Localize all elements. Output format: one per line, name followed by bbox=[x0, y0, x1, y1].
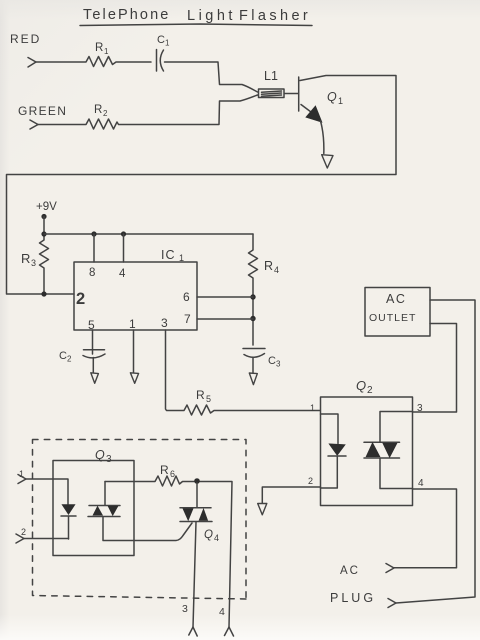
svg-text:3: 3 bbox=[182, 603, 188, 615]
svg-text:3: 3 bbox=[31, 258, 36, 268]
svg-text:7: 7 bbox=[184, 312, 191, 326]
svg-text:4: 4 bbox=[418, 478, 424, 489]
svg-text:3: 3 bbox=[106, 454, 112, 465]
svg-text:R: R bbox=[264, 259, 273, 273]
svg-text:GREEN: GREEN bbox=[18, 104, 67, 118]
svg-text:Q: Q bbox=[327, 90, 337, 104]
svg-text:Q: Q bbox=[204, 529, 213, 541]
svg-text:2: 2 bbox=[308, 476, 313, 486]
svg-text:4: 4 bbox=[214, 533, 219, 543]
svg-text:3: 3 bbox=[161, 316, 168, 330]
svg-text:AC: AC bbox=[340, 565, 360, 577]
svg-text:5: 5 bbox=[206, 394, 211, 404]
svg-text:AC: AC bbox=[386, 292, 406, 306]
svg-text:IC: IC bbox=[161, 248, 176, 262]
svg-text:C: C bbox=[268, 355, 276, 367]
svg-text:R: R bbox=[196, 388, 205, 402]
svg-text:C: C bbox=[59, 350, 67, 362]
svg-text:R: R bbox=[94, 104, 102, 116]
svg-text:6: 6 bbox=[170, 469, 175, 479]
svg-text:R: R bbox=[95, 42, 103, 54]
svg-text:2: 2 bbox=[76, 290, 85, 308]
svg-text:5: 5 bbox=[88, 318, 95, 332]
svg-text:1: 1 bbox=[129, 317, 136, 331]
svg-text:1: 1 bbox=[165, 39, 170, 48]
svg-text:Q: Q bbox=[95, 448, 105, 462]
svg-text:TelePhone: TelePhone bbox=[83, 7, 170, 23]
svg-text:Flasher: Flasher bbox=[239, 8, 311, 24]
svg-text:2: 2 bbox=[367, 385, 373, 396]
svg-text:C: C bbox=[157, 34, 165, 46]
svg-text:2: 2 bbox=[103, 109, 108, 118]
svg-text:4: 4 bbox=[219, 606, 225, 618]
svg-text:4: 4 bbox=[274, 265, 279, 275]
svg-text:1: 1 bbox=[104, 47, 109, 56]
svg-text:Light: Light bbox=[187, 8, 236, 24]
svg-text:2: 2 bbox=[21, 527, 26, 537]
svg-text:R: R bbox=[21, 251, 30, 266]
svg-text:2: 2 bbox=[67, 355, 72, 364]
svg-text:3: 3 bbox=[276, 360, 281, 369]
svg-text:OUTLET: OUTLET bbox=[369, 312, 416, 324]
svg-text:1: 1 bbox=[338, 96, 343, 106]
svg-text:4: 4 bbox=[119, 268, 126, 280]
svg-text:R: R bbox=[160, 463, 169, 477]
svg-text:Q: Q bbox=[356, 378, 366, 393]
svg-text:PLUG: PLUG bbox=[330, 591, 376, 605]
svg-text:1: 1 bbox=[179, 253, 184, 263]
svg-text:8: 8 bbox=[89, 267, 95, 279]
svg-text:1: 1 bbox=[310, 403, 315, 413]
svg-text:RED: RED bbox=[10, 32, 41, 46]
svg-text:+9V: +9V bbox=[36, 201, 57, 213]
svg-text:6: 6 bbox=[183, 290, 190, 304]
svg-text:L1: L1 bbox=[264, 69, 278, 83]
